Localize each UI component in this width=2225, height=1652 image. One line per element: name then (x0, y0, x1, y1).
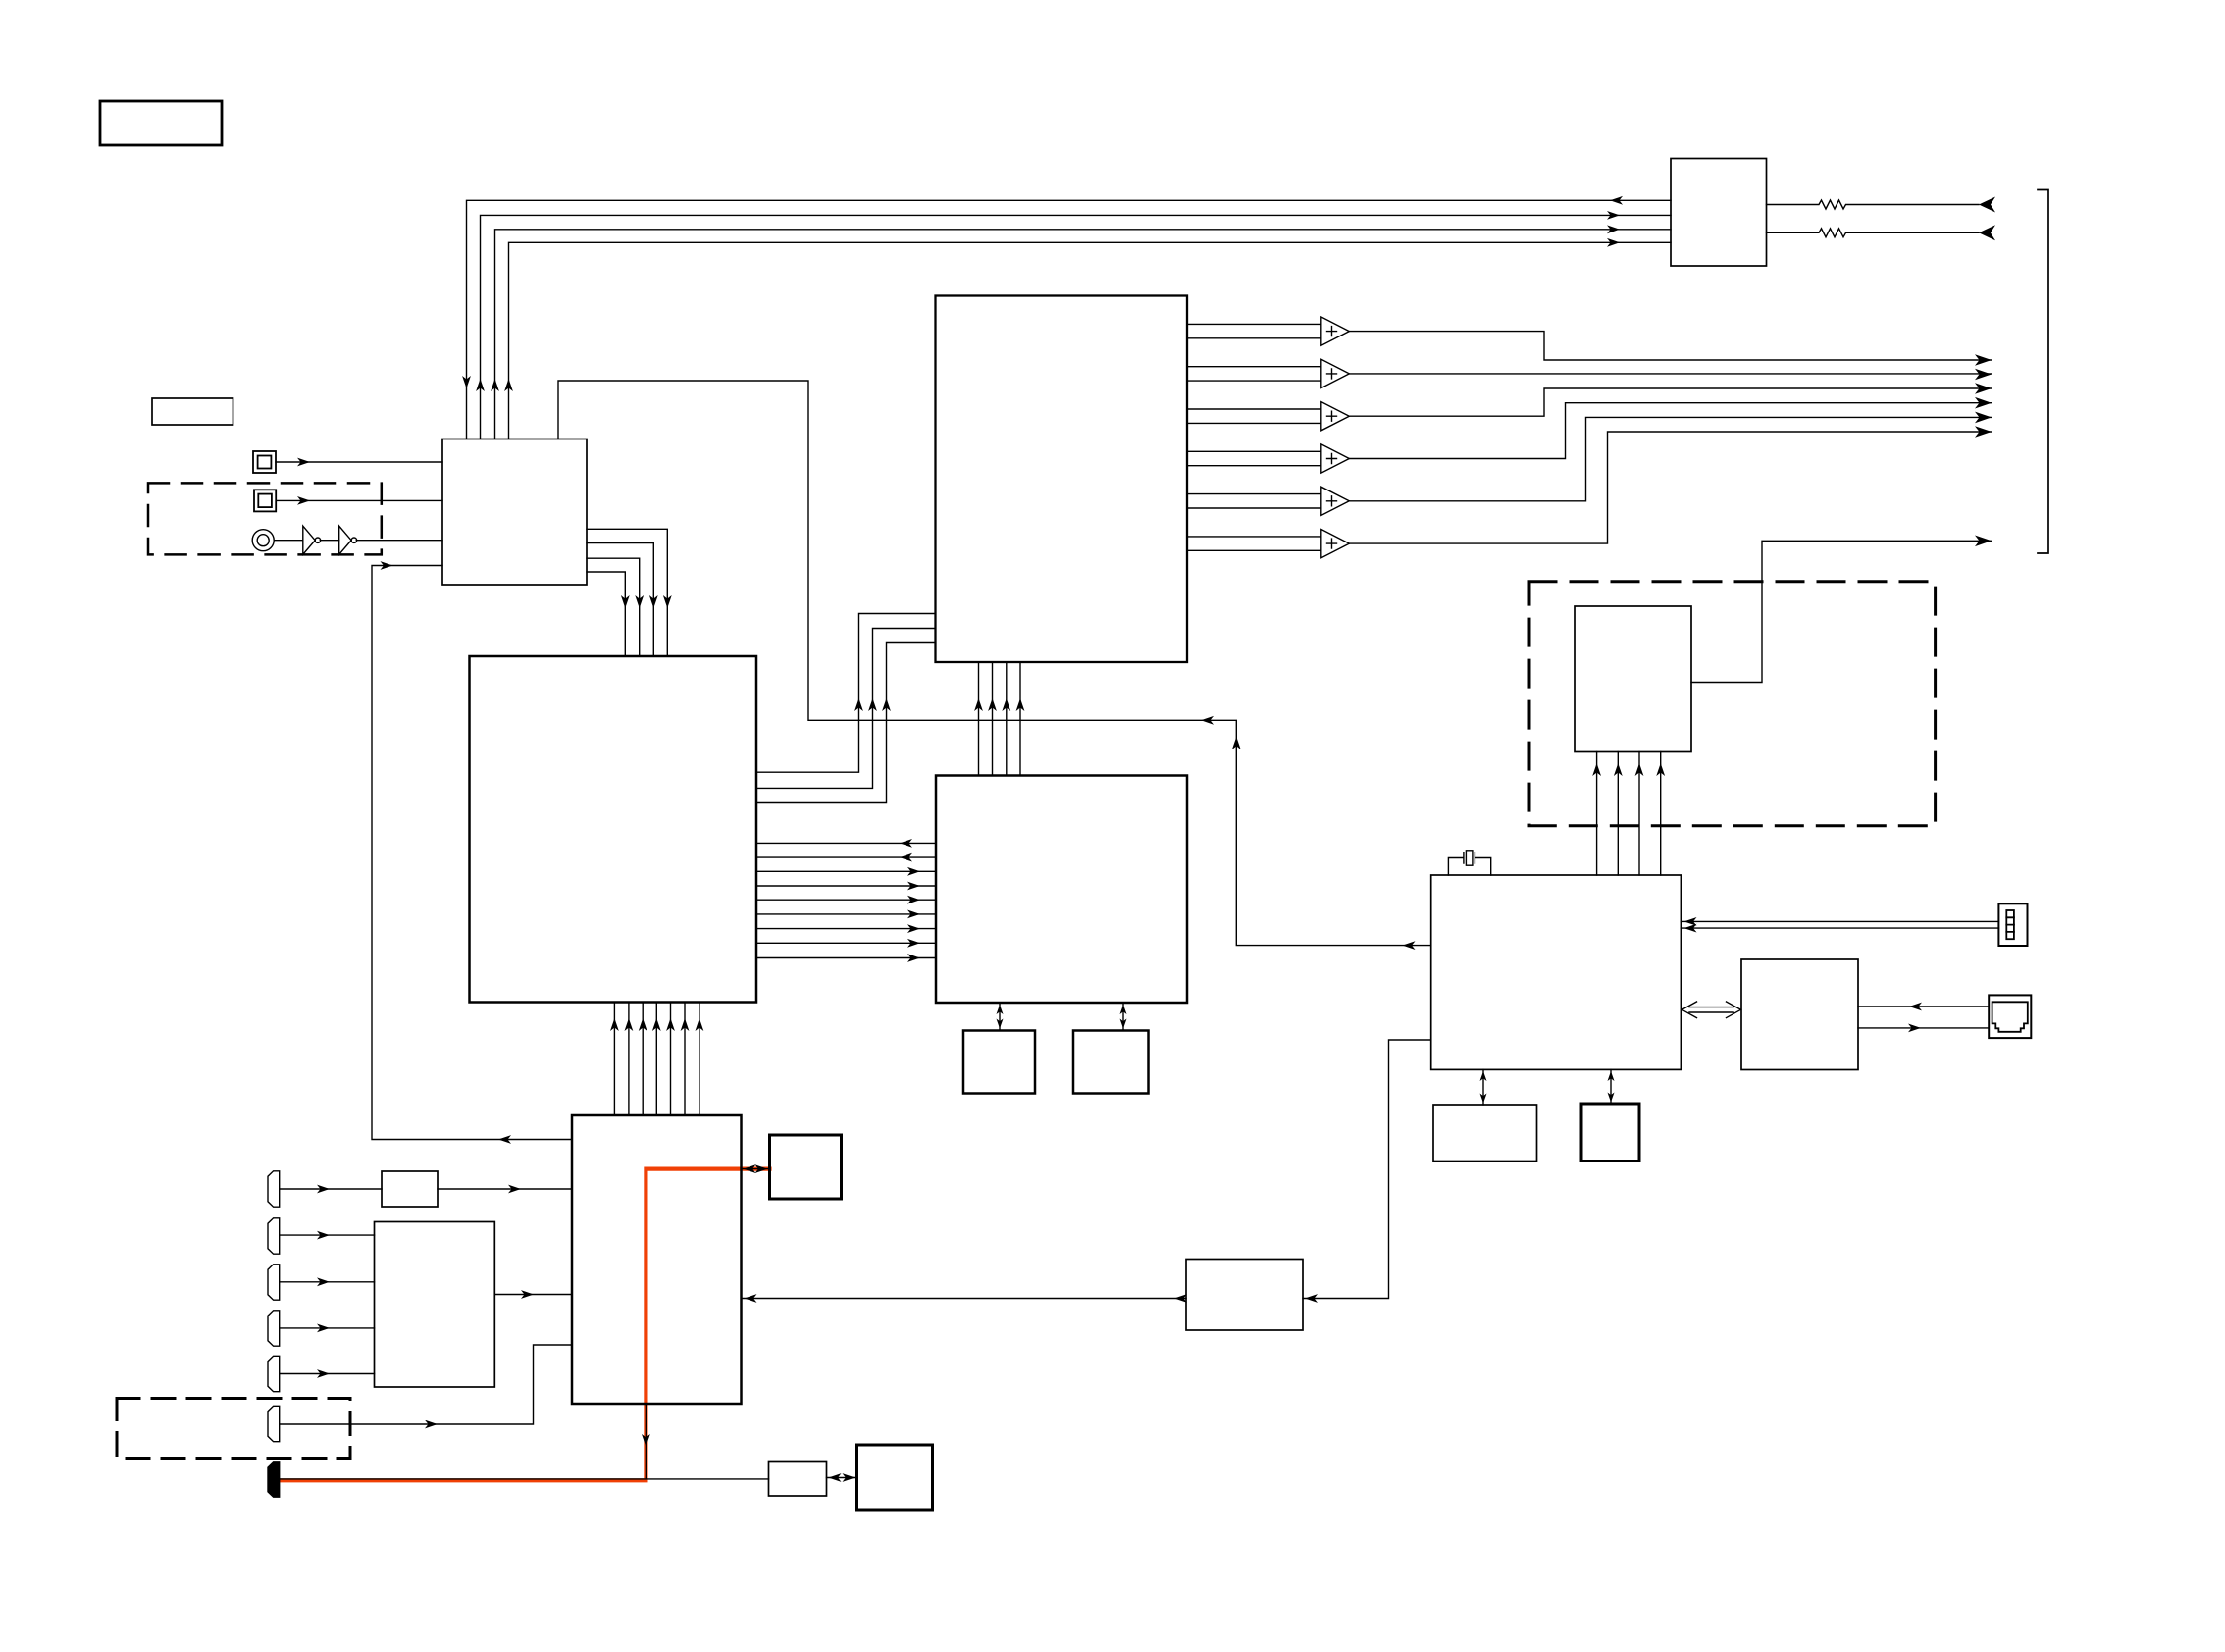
wire C to Q2 bidirectional (1122, 1003, 1124, 1031)
wire optical in 1 to A (276, 461, 442, 463)
legend box (152, 398, 233, 425)
wire amp2 output (1349, 373, 1992, 375)
connector optical square 1 (253, 451, 276, 473)
wire B to DAC 3 (756, 643, 936, 803)
block L1 buffer (382, 1171, 438, 1207)
wire bus2 A to D (481, 215, 1672, 438)
bus arrow F to H2 bidirectional (1682, 1002, 1741, 1018)
wire M to K (494, 1294, 572, 1296)
wire K to B 5 (670, 1003, 672, 1116)
crystal X1 on F (1448, 852, 1490, 875)
wire DIP switch to F 2 (1681, 927, 1998, 929)
wire B to C 9 (756, 957, 936, 959)
wire bus3 A to D (495, 230, 1672, 439)
block Q2 ROM (1073, 1031, 1149, 1094)
wire orange highlight path (remote connector to servo block to front panel) (280, 1169, 770, 1481)
wire L3 to P bidirectional (827, 1477, 857, 1479)
output group bracket (2038, 190, 2048, 554)
wire amp6 output (1349, 432, 1992, 543)
wire L1 to K (438, 1188, 572, 1190)
inverter U1 (303, 526, 315, 554)
wire optical in 2 to A (276, 499, 442, 501)
op-amp A5 (1321, 487, 1350, 515)
op-amp A1 (1321, 317, 1350, 345)
dashed box DB2 remote sensor group (117, 1399, 350, 1459)
connector DIP switch (1998, 903, 2027, 946)
wire bus1 D to A (467, 200, 1672, 438)
connector optical square 2 (254, 490, 276, 511)
wire K to B 4 (655, 1003, 657, 1116)
wire B to C 5 (756, 899, 936, 901)
wire C to B 1 (756, 842, 936, 844)
wire K to N bidirectional (742, 1168, 770, 1170)
wire B to C 6 (756, 913, 936, 915)
resistor R1 line from D (1767, 200, 1980, 209)
block K servo control (572, 1115, 742, 1404)
dashed box DB1 headphone option group (1529, 582, 1936, 826)
wire F to E 1 (1596, 752, 1598, 876)
wire amp1 output (1349, 332, 1992, 360)
wire H2 to jack send (1858, 1027, 1989, 1029)
connector key 3 (268, 1265, 280, 1300)
wire E headphone output (1691, 541, 1992, 682)
wire B to C 4 (756, 885, 936, 887)
connector key 1 (268, 1171, 280, 1207)
wire F to E 4 (1660, 752, 1662, 876)
wire W3 K to A (372, 566, 572, 1140)
wire B to C 8 (756, 942, 936, 944)
wire K to B 3 (642, 1003, 644, 1116)
block Q1 RAM (963, 1031, 1035, 1094)
block H2 display driver (1741, 959, 1858, 1070)
wire H2 to jack receive (1858, 1006, 1989, 1007)
connector key 4 (268, 1311, 280, 1346)
wire C to DAC 4 (1019, 662, 1021, 776)
wire K down to L3 junction (280, 1404, 769, 1479)
op-amp A4 (1321, 444, 1350, 473)
wire C to DAC 1 (978, 662, 980, 776)
wire K to B 6 (684, 1003, 686, 1116)
connector key 5 (268, 1356, 280, 1391)
wire remote sensor to K (280, 1345, 572, 1424)
inverter U2 (339, 526, 351, 554)
block N mechanism (770, 1135, 842, 1199)
connector coax RCA (252, 530, 274, 551)
block C audio decoder (936, 776, 1187, 1004)
op-amp A6 (1321, 530, 1350, 558)
block F microcontroller (1431, 875, 1682, 1069)
resistor R2 line from D (1767, 229, 1980, 237)
wire F to I2 bidirectional (1610, 1069, 1612, 1104)
wire C to B 2 (756, 856, 936, 858)
op-amp A3 (1321, 402, 1350, 431)
wire K to B 7 (699, 1003, 700, 1116)
connector RJ jack (1989, 995, 2031, 1038)
wire key4 to M (280, 1327, 375, 1329)
wire W1 MCU F to A mute control (558, 381, 1431, 946)
wire K to B 1 (613, 1003, 615, 1116)
block A input switch (442, 439, 587, 586)
block I1 memory (1433, 1105, 1537, 1162)
wire amp4 output (1349, 403, 1992, 459)
wire A to B data 4 (587, 572, 625, 656)
wire bus4 A to D (509, 242, 1672, 438)
wire key5 to M (280, 1373, 375, 1375)
wire B to DAC 2 (756, 629, 936, 789)
op-amp A2 (1321, 359, 1350, 387)
connector key 2 (268, 1218, 280, 1254)
dashed box DB0 optical input group (148, 483, 382, 554)
wire amp3 output (1349, 388, 1992, 416)
wire B to DAC 1 (756, 614, 936, 773)
wire power key to L1 (280, 1188, 382, 1190)
connector remote sensor (268, 1406, 280, 1441)
wire B to C 7 (756, 928, 936, 930)
block L3 interface (769, 1462, 827, 1497)
wire DIP switch to F 1 (1681, 920, 1998, 922)
block E headphone amp in dashed area (1575, 606, 1691, 752)
wire C to DAC 3 (1006, 662, 1008, 776)
wire B to C 3 (756, 870, 936, 872)
block M key matrix (375, 1222, 495, 1388)
wire key3 to M (280, 1281, 375, 1283)
wire C to DAC 2 (992, 662, 994, 776)
wire A to B data 3 (587, 558, 640, 656)
block B main DSP (470, 656, 757, 1003)
wire K to B 2 (628, 1003, 630, 1116)
wire A to B data 2 (587, 543, 653, 656)
block D line driver top right (1671, 159, 1767, 267)
title box (100, 101, 222, 145)
wire amp5 output (1349, 417, 1992, 500)
wire F to E 3 (1638, 752, 1640, 876)
wire key2 to M (280, 1234, 375, 1236)
wire coax input through inverters to A (274, 540, 442, 542)
wire G to K (742, 1298, 1187, 1300)
wire F to E 2 (1617, 752, 1619, 876)
wire A to B data 1 (587, 529, 667, 656)
connector front panel filled (268, 1462, 280, 1497)
block P motor (857, 1445, 933, 1510)
block DAC (936, 296, 1188, 663)
wire F to I1 bidirectional (1482, 1069, 1484, 1105)
wires DAC to amp inputs (1187, 324, 1321, 550)
wire W2 F to G (1303, 1040, 1431, 1299)
block I2 reset IC (1581, 1104, 1639, 1162)
block G timer (1186, 1260, 1303, 1331)
wire C to Q1 bidirectional (999, 1003, 1001, 1031)
